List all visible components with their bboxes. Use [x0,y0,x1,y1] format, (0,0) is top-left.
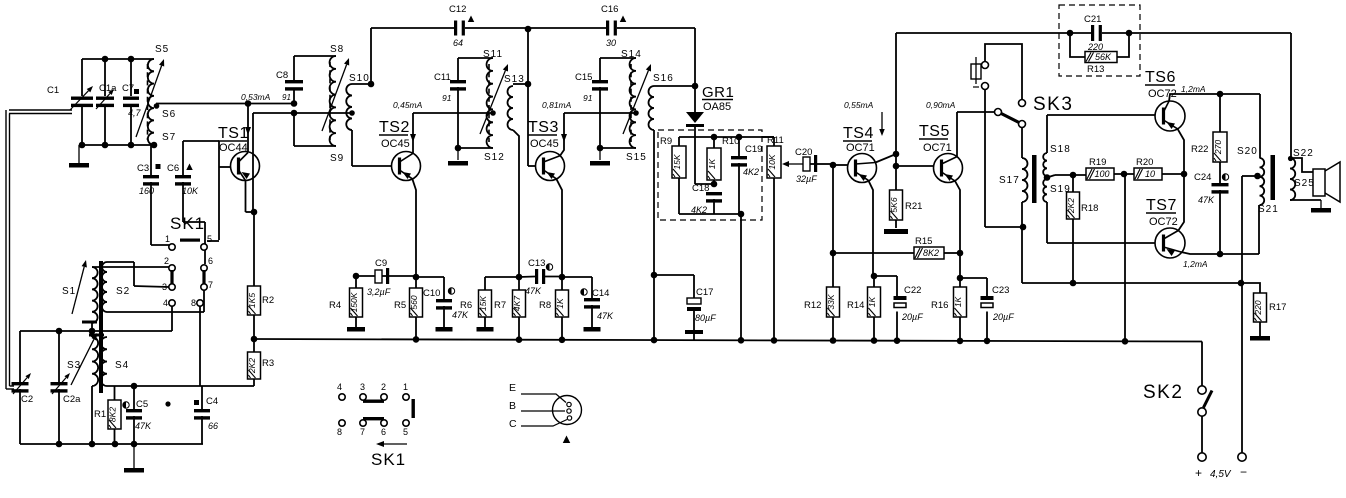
svg-text:C14: C14 [592,288,609,299]
svg-text:30: 30 [606,38,616,48]
svg-text:C6: C6 [167,163,179,174]
svg-text:SK1: SK1 [371,450,406,469]
svg-text:C17: C17 [696,287,713,298]
wire S11 tank bottom [458,147,493,149]
wire TS7 top [1178,174,1184,231]
svg-text:R5: R5 [394,300,406,311]
svg-text:0,81mA: 0,81mA [542,100,572,110]
svg-text:1K: 1K [867,296,877,307]
resistor R6 15K [484,277,486,290]
svg-text:0,90mA: 0,90mA [926,100,956,110]
svg-text:S6: S6 [162,109,176,120]
resistor R7 4K7 [513,290,526,317]
svg-text:C2a: C2a [63,394,81,405]
wire TS4 base [830,162,837,169]
svg-text:1K: 1K [555,298,565,309]
svg-text:1K: 1K [953,296,963,307]
svg-text:C3: C3 [137,163,149,174]
ground S14 tank [599,148,601,160]
coil S3 [92,337,98,386]
resistor R21 5K6 [890,190,903,220]
coil S8 with core [330,56,336,146]
ground S11 tank [457,148,459,160]
svg-text:10K: 10K [767,154,777,169]
coil S1 [92,267,98,323]
wire supply drop x896 [895,33,897,190]
wire main bottom rail [254,339,1202,342]
wire TS6 collector to S20 [1259,94,1261,158]
wire TS4 emitter [868,180,873,276]
wire bottom of input tank [79,144,154,146]
resistor R5 560 [413,274,420,281]
resistor R19 100 [1086,168,1114,180]
wire jack to contact [985,44,1022,100]
junction dot TS1 collector [245,100,252,107]
svg-text:R2: R2 [262,295,274,306]
wire tap to R19 [1047,175,1055,178]
svg-text:220: 220 [1253,300,1263,315]
wire S22 bottom to speaker [1290,199,1321,201]
resistor R9 15K [678,137,680,146]
svg-text:6: 6 [208,256,213,266]
svg-text:220: 220 [1087,42,1103,52]
svg-text:S7: S7 [162,132,176,143]
wire R20 right [1162,173,1184,175]
wire TS5 base [896,165,934,167]
svg-text:5: 5 [207,234,212,244]
wire S14 tap to TS3 [564,112,636,114]
wire detector top bus [679,136,774,138]
transistor TS6 [1155,101,1185,131]
junction dots bottom tank [79,142,86,149]
svg-text:R9: R9 [660,136,672,147]
wire bottom-left rail [20,443,203,445]
wire mixer input 0,53mA [156,103,294,105]
svg-text:560: 560 [409,295,419,309]
wire TS5 collector [956,112,958,157]
svg-text:S11: S11 [483,49,503,60]
svg-text:4K7: 4K7 [512,296,522,311]
svg-text:TS6: TS6 [1145,69,1176,86]
svg-text:C11: C11 [434,72,451,83]
transistor TS1 [231,152,260,181]
svg-text:R3: R3 [262,358,274,369]
resistor R18 2K2 [1072,175,1074,192]
svg-text:S5: S5 [155,44,169,55]
node S6 tap on S5 [154,103,160,109]
wire S10 bottom to TS2 base [351,130,353,166]
resistor R22 270 [1219,94,1221,132]
svg-text:4K2: 4K2 [743,167,759,177]
svg-text:C22: C22 [904,285,921,296]
svg-text:R21: R21 [905,201,922,212]
resistor R14 1K [871,273,878,280]
svg-text:10: 10 [1145,169,1155,179]
svg-text:R1: R1 [94,409,106,420]
svg-text:66: 66 [208,421,218,431]
svg-text:C13: C13 [528,258,545,269]
svg-text:S21: S21 [1258,204,1279,215]
wire TS3 collector [560,113,564,156]
resistor R15 8K2 [830,250,837,257]
svg-text:C15: C15 [575,72,592,83]
svg-text:2K2: 2K2 [1066,198,1076,214]
svg-text:4: 4 [337,382,342,392]
svg-text:TS7: TS7 [1146,197,1177,214]
coil S14 S15 with core [630,58,636,148]
svg-text:S15: S15 [626,152,647,163]
resistor R20 10 [1134,168,1162,180]
wire TS6 collector [1169,94,1260,101]
dashed box C21 R13 [1059,5,1140,76]
capacitor C24 47K [1212,183,1229,186]
separator bars [82,321,97,324]
wire TS4 emitter to C22 [874,275,897,277]
node top wire of input tank [82,58,154,60]
svg-text:1K5: 1K5 [247,293,257,308]
svg-text:S8: S8 [330,44,344,55]
wire S16 top [654,85,695,87]
svg-text:4: 4 [163,298,168,308]
ground below input tank [78,145,80,163]
wire C1 stem [81,59,83,96]
dashed detector box [658,130,762,220]
resistor R11 10K volume [762,136,774,138]
wire TS1 emitter [245,181,247,213]
transistor TS3 [536,152,565,181]
svg-text:20µF: 20µF [992,312,1014,322]
coil S19 [1043,179,1047,202]
svg-text:91: 91 [442,93,452,103]
capacitor C9 3,2uF [356,275,375,277]
svg-text:SK2: SK2 [1143,382,1183,403]
wire SK1 contact5 to TS1 base [207,240,219,242]
junction dots top tank [102,56,109,63]
svg-text:47K: 47K [452,310,469,320]
wire ferrite bottom [91,323,93,337]
svg-text:C18: C18 [692,183,709,194]
wire TS2 emitter [412,179,416,277]
svg-text:SK1: SK1 [170,214,205,233]
resistor R4 150K [353,273,360,280]
svg-text:8: 8 [337,427,342,437]
coil S18 [1043,153,1047,176]
svg-text:C7: C7 [122,83,134,94]
transformer core S17 [1032,155,1037,203]
svg-text:S10: S10 [349,73,370,84]
svg-text:5K6: 5K6 [889,197,899,212]
wire TS5 emitter [955,181,960,287]
wire supply to S22 [1290,33,1292,158]
svg-text:1,2mA: 1,2mA [1183,259,1208,269]
resistor R16 1K [954,287,967,317]
svg-text:S20: S20 [1237,146,1258,157]
svg-text:TS5: TS5 [919,123,950,140]
capacitor C22 20uF [894,296,907,300]
capacitor C15 91 [599,58,601,80]
switch lever SK3 [995,109,1002,116]
coil S16 [649,86,655,130]
capacitor C6 10K [182,141,184,175]
wire TS7 emitter [1181,252,1259,254]
svg-text:S25: S25 [1294,178,1315,189]
svg-text:OA85: OA85 [703,101,731,113]
svg-text:C8: C8 [276,70,288,81]
wire battery feed x1125 [1124,174,1126,341]
svg-text:OC44: OC44 [219,142,248,154]
svg-text:2: 2 [381,382,386,392]
svg-text:47K: 47K [1198,195,1215,205]
wire S16 bottom down [653,130,655,341]
svg-text:S14: S14 [621,49,642,60]
wire R6 to R7 top [485,276,519,278]
svg-text:47K: 47K [597,311,614,321]
wire C1a stem [104,59,106,96]
wiper arrow R11 [789,163,803,165]
svg-text:R12: R12 [804,300,821,311]
capacitor C4 66 [201,386,203,409]
svg-text:C10: C10 [423,288,440,299]
wire TS2 collector [412,113,414,153]
capacitor C14 47K [562,276,592,278]
svg-text:7: 7 [208,280,213,290]
coil S11 S12 with core [487,58,493,148]
svg-text:S1: S1 [62,286,76,297]
capacitor C23 20uF [981,296,994,300]
transistor TS5 [934,154,963,183]
junction dot C8 [291,100,298,107]
svg-text:8K2: 8K2 [923,248,939,258]
svg-text:OC45: OC45 [530,138,559,150]
svg-text:TS1: TS1 [218,125,249,142]
resistor R12 33K [827,287,840,317]
svg-text:R15: R15 [915,236,932,247]
svg-text:C16: C16 [601,4,618,15]
transistor TS7 [1155,228,1185,258]
svg-text:91: 91 [282,93,291,102]
resistor R2 1K5 [251,209,258,216]
svg-text:S12: S12 [484,152,505,163]
svg-text:TS3: TS3 [528,119,559,136]
capacitor C2a variable [58,331,60,382]
capacitor C7 trimmer 4,7 [123,97,139,100]
capacitor C1a variable [96,97,114,100]
capacitor C12 64 [454,21,457,36]
coil S13 [508,86,514,130]
diode GR1 OA85 [694,86,696,112]
svg-text:8K2: 8K2 [108,407,118,422]
svg-text:33K: 33K [826,294,836,309]
ground main left [133,444,135,468]
wire detector bottom bus [679,213,741,215]
wire TS4 collector [875,154,896,163]
transformer core S1-S4 [99,261,103,393]
junction dots [89,328,96,335]
capacitor C10 47K [416,276,444,278]
svg-text:GR1: GR1 [702,84,734,101]
svg-text:R4: R4 [329,300,341,311]
capacitor C20 32uF [803,157,810,171]
svg-text:56K: 56K [1095,52,1112,62]
coil S2 [102,262,107,312]
svg-text:2K2: 2K2 [247,358,257,374]
svg-text:S16: S16 [653,73,674,84]
wire AGC from S8 [252,113,254,212]
wire S11 tap to TS2 [413,112,493,114]
node center tap S20-S21 [1254,173,1261,180]
svg-text:C4: C4 [206,396,218,407]
svg-text:3: 3 [360,382,365,392]
svg-text:C12: C12 [449,4,466,15]
transformer core output [1271,155,1276,200]
svg-text:32µF: 32µF [796,174,817,184]
svg-text:E: E [509,382,516,394]
resistor R8 1K [559,274,566,281]
svg-text:4,7: 4,7 [128,108,142,118]
wire SK1 contact3 to S2 top [107,261,134,263]
wire SK1 contact4 down [171,306,173,331]
svg-text:80µF: 80µF [695,313,716,323]
svg-text:6: 6 [381,427,386,437]
svg-text:8: 8 [191,298,196,308]
ground speaker [1320,200,1322,208]
svg-text:R22: R22 [1191,144,1208,155]
jack socket [975,57,977,84]
svg-text:C23: C23 [992,285,1009,296]
capacitor C21 220 [1091,25,1094,41]
wire SK3 to S17 [1021,128,1023,159]
svg-text:7: 7 [360,427,365,437]
svg-text:R14: R14 [847,300,864,311]
resistor R10 1K [713,137,715,148]
svg-text:R18: R18 [1081,203,1098,214]
svg-text:+: + [1195,466,1202,480]
wire S13 bottom to R7 [513,130,519,277]
resistor R1 8K2 [114,386,116,400]
svg-text:20µF: 20µF [901,312,923,322]
wire S14 tank bottom [600,147,636,149]
wire S4 bottom bus [107,385,253,387]
svg-text:TS4: TS4 [843,125,874,142]
svg-text:1: 1 [403,382,408,392]
node S14 tap [633,110,639,116]
svg-text:3,2µF: 3,2µF [367,287,391,297]
svg-text:1: 1 [165,234,170,244]
svg-text:TS2: TS2 [379,119,410,136]
wire C12 to S13 and TS3 base [527,29,529,166]
coil S10 [346,84,352,130]
coil S4 [101,337,107,386]
wire TS5 collector to SK3 [957,111,995,113]
wire rail 283 [1022,282,1241,284]
svg-text:B: B [509,400,516,412]
svg-text:0,45mA: 0,45mA [393,100,423,110]
svg-text:R16: R16 [931,300,948,311]
capacitor C16 30 [606,21,609,36]
stray dot [165,401,170,406]
svg-text:C1: C1 [47,85,59,96]
svg-text:1K: 1K [707,158,717,169]
svg-text:S19: S19 [1050,184,1071,195]
capacitor C19 4K2 [738,137,740,156]
svg-text:15K: 15K [672,154,682,169]
svg-text:10K: 10K [182,186,199,196]
svg-text:R8: R8 [539,300,551,311]
svg-text:OC71: OC71 [846,142,875,154]
svg-text:S17: S17 [999,175,1020,186]
svg-text:5: 5 [403,427,408,437]
svg-text:R10: R10 [722,136,739,147]
svg-text:15K: 15K [478,296,488,311]
svg-text:−: − [1240,465,1247,479]
wire top coupling rail [371,27,454,29]
svg-text:S3: S3 [67,360,81,371]
svg-text:R7: R7 [494,300,506,311]
wire TS1 collector [247,104,249,153]
svg-text:R13: R13 [1087,64,1104,75]
svg-text:C9: C9 [375,258,387,269]
svg-text:S18: S18 [1050,144,1071,155]
svg-text:R6: R6 [460,300,472,311]
svg-text:C24: C24 [1194,172,1211,183]
wire top supply rail [896,32,1091,34]
svg-text:OC71: OC71 [923,142,952,154]
svg-text:C21: C21 [1084,14,1101,25]
wire to S21 bottom [1258,205,1260,254]
wire S14 tank top [600,57,636,59]
wire S18 top to TS6 base [1046,115,1048,153]
svg-text:160: 160 [139,186,154,196]
wire TS5 emitter to C23 [960,277,987,279]
svg-text:47K: 47K [135,421,152,431]
wire SK1 contact8 down [199,306,201,386]
capacitor C3 160 [150,145,152,175]
ground R21 [884,229,908,234]
wire S19 bottom to TS7 base [1046,202,1048,243]
svg-text:R19: R19 [1089,157,1106,168]
transformer S17 primary [1022,158,1028,202]
coil S22 S25 secondary [1290,158,1295,200]
svg-text:C20: C20 [795,147,812,158]
wire SK1 contact2 to S1 [92,266,169,268]
wire TS1 base [219,166,231,168]
svg-text:S2: S2 [116,286,130,297]
svg-text:R11: R11 [767,135,784,146]
wire S17 bottom to rail283 [1021,227,1023,283]
svg-text:47K: 47K [525,286,542,296]
svg-text:64: 64 [453,38,463,48]
coil S5 with core [148,59,154,145]
node S18-S19 junction [1044,174,1051,181]
svg-text:C1a: C1a [99,83,117,94]
wire C6 to TS1 base [183,140,219,142]
capacitor C2 variable [19,331,21,382]
wire detector to rail [740,214,742,341]
battery terminals [1238,453,1246,461]
svg-text:91: 91 [583,93,593,103]
svg-text:S13: S13 [504,74,525,85]
svg-text:0,55mA: 0,55mA [844,100,874,110]
capacitor C13 47K [519,276,535,279]
coil S20 S21 output primary [1260,158,1265,205]
svg-text:C19: C19 [745,144,762,155]
capacitor C8 [293,89,295,104]
capacitor C11 91 [457,58,459,80]
wire jack lower down [984,90,986,228]
svg-text:OC72: OC72 [1149,216,1178,228]
svg-text:150K: 150K [349,292,359,312]
wire center tap to battery minus [1242,175,1258,177]
